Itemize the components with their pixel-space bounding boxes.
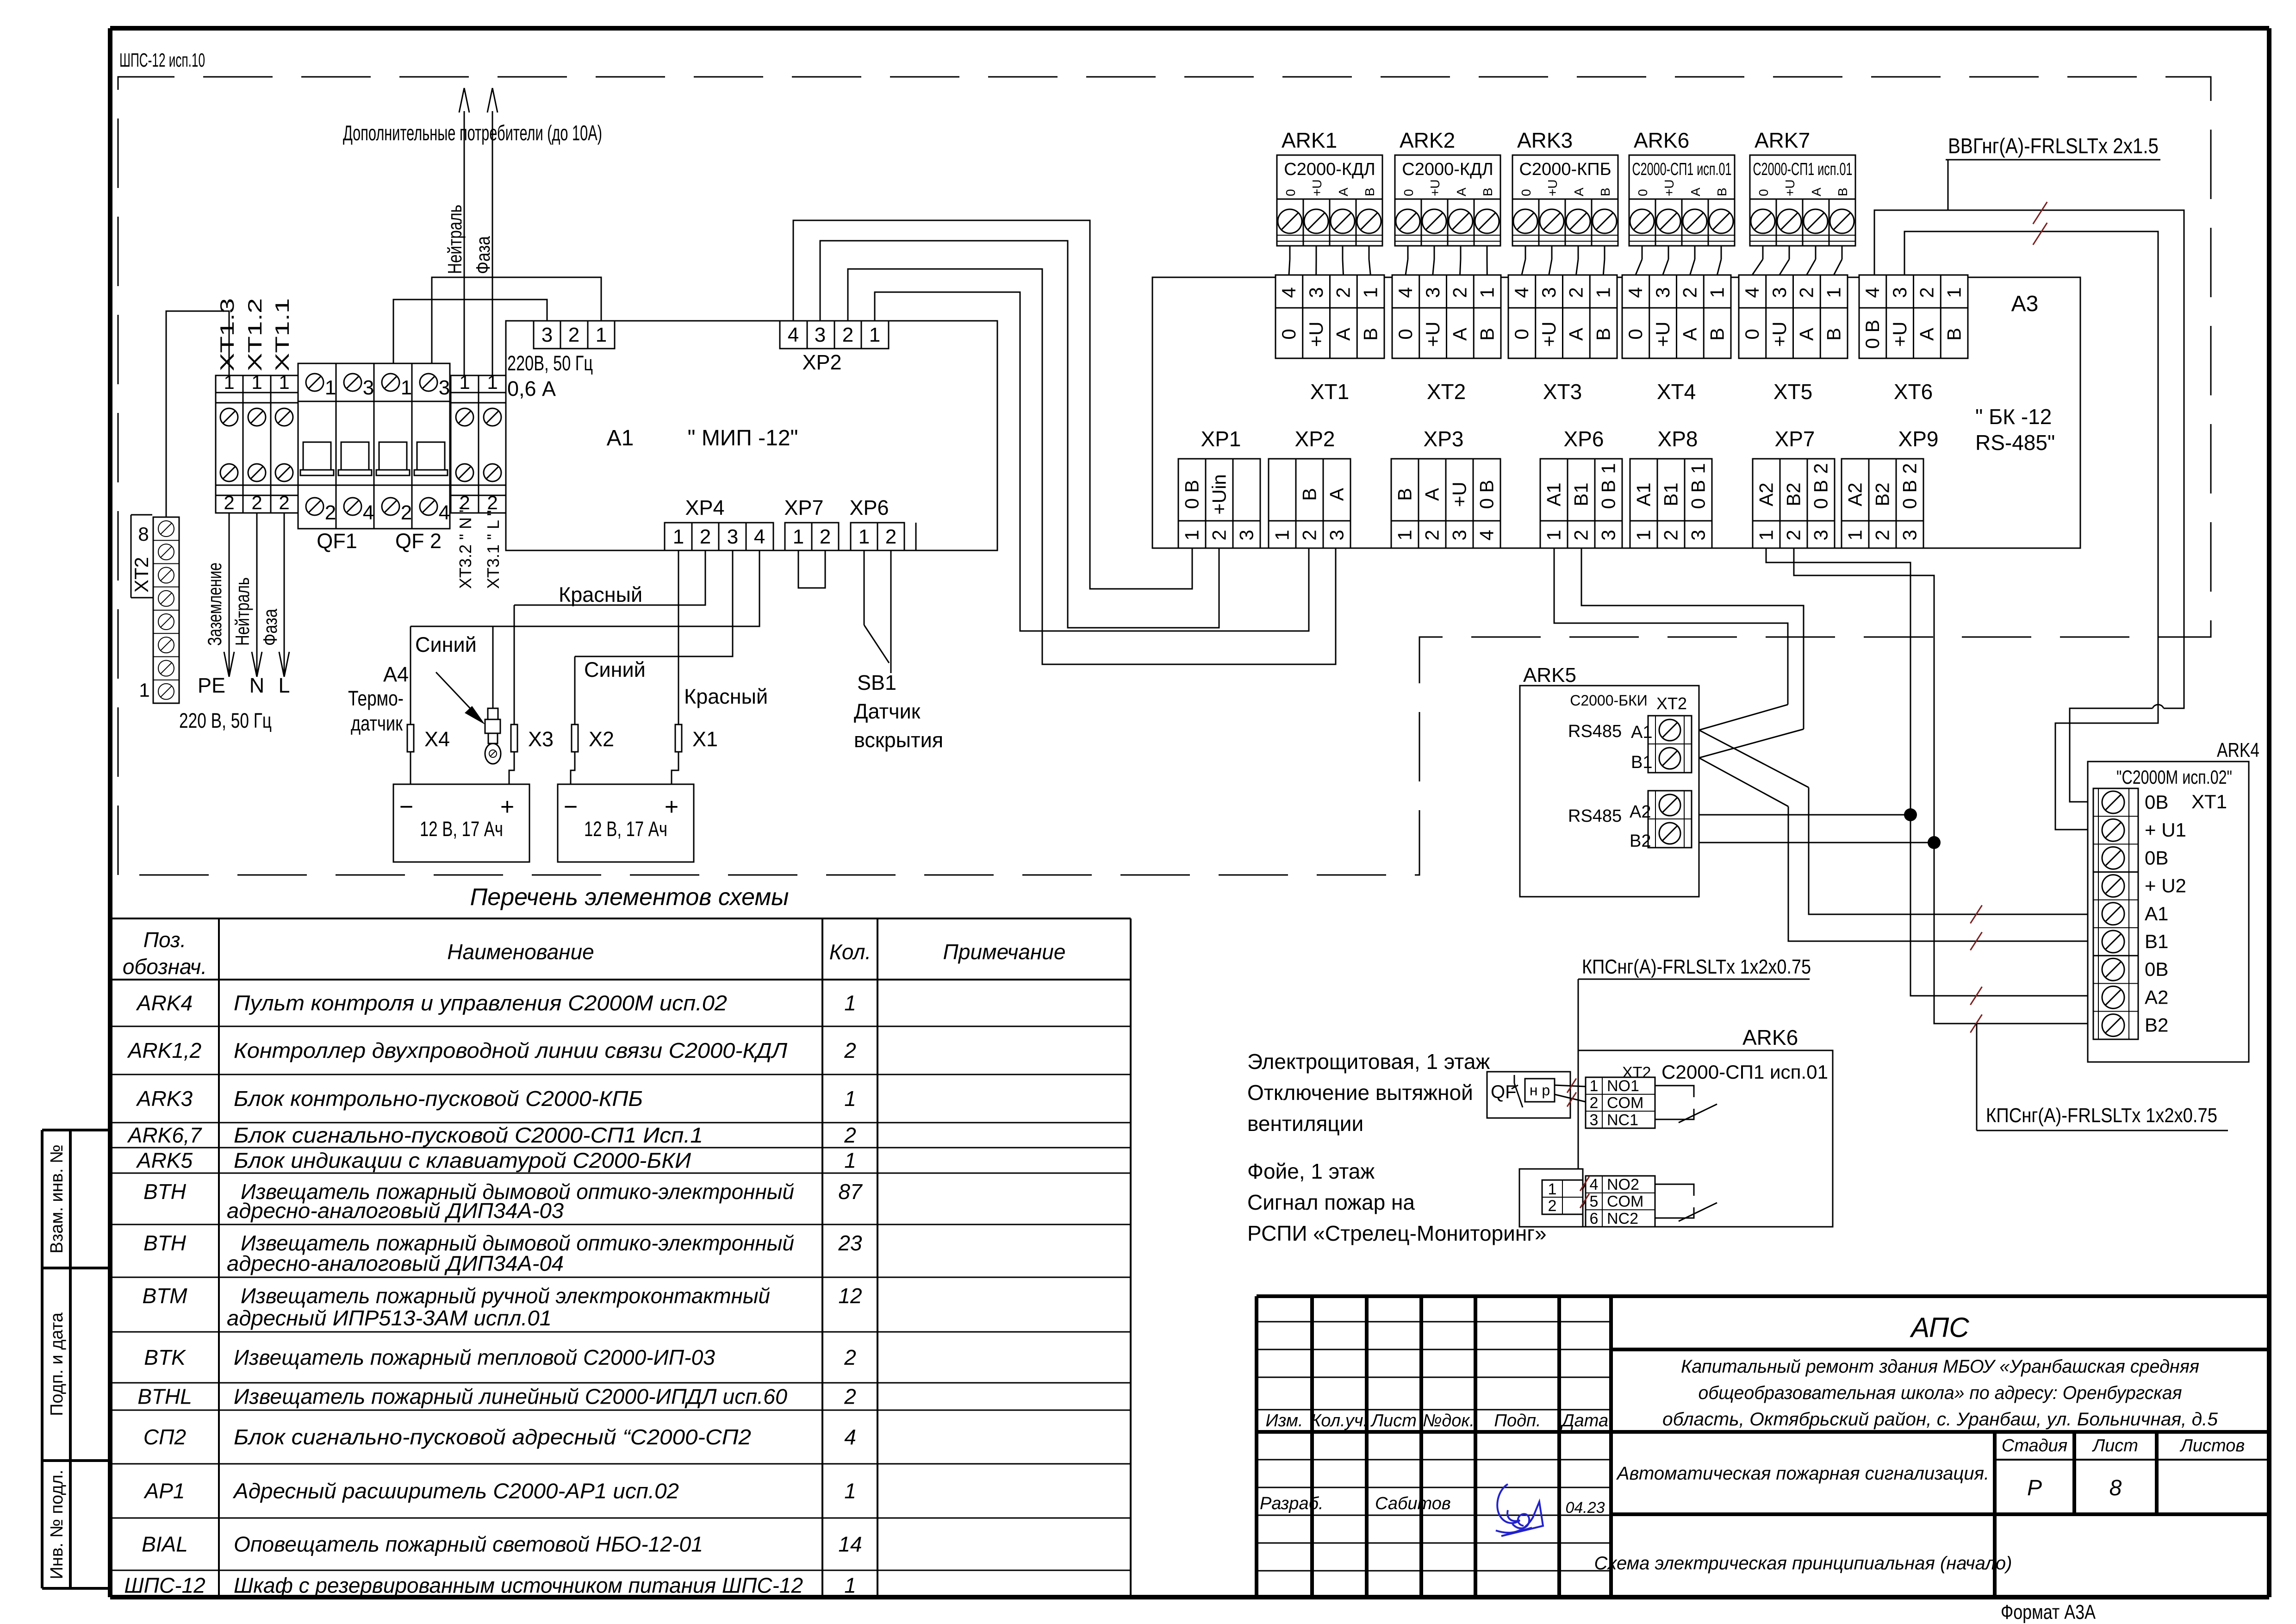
svg-text:Лист: Лист (1370, 1411, 1417, 1430)
svg-text:Пульт контроля и управления С2: Пульт контроля и управления С2000М исп.0… (234, 991, 727, 1015)
svg-text:2: 2 (1916, 287, 1938, 298)
svg-text:NC1: NC1 (1607, 1111, 1638, 1129)
svg-text:04.23: 04.23 (1565, 1499, 1605, 1517)
svg-text:В: В (1823, 328, 1844, 341)
svg-text:QF 2: QF 2 (395, 529, 442, 553)
svg-text:2: 2 (844, 1385, 856, 1409)
svg-text:Блок контрольно-пусковой С2000: Блок контрольно-пусковой С2000-КПБ (234, 1087, 643, 1111)
svg-text:3: 3 (363, 376, 374, 399)
svg-text:4: 4 (1741, 287, 1763, 298)
svg-text:Автоматическая пожарная сигнал: Автоматическая пожарная сигнализация. (1616, 1463, 1989, 1484)
svg-text:ARK4: ARK4 (2217, 739, 2259, 762)
svg-text:Х2: Х2 (589, 727, 614, 751)
svg-text:1: 1 (139, 679, 149, 701)
svg-text:А: А (1454, 187, 1468, 196)
svg-text:0 В: 0 В (1861, 319, 1883, 349)
svg-text:Перечень элементов схемы: Перечень элементов схемы (470, 884, 789, 911)
svg-text:ARK7: ARK7 (1755, 128, 1810, 152)
svg-text:Нейтраль: Нейтраль (444, 205, 466, 274)
svg-text:RS-485": RS-485" (1975, 431, 2055, 455)
svg-text:+U: +U (1305, 322, 1327, 347)
svg-text:0: 0 (1741, 329, 1763, 339)
svg-text:+U: +U (1538, 322, 1560, 347)
svg-text:2: 2 (1810, 463, 1832, 474)
svg-text:2: 2 (1299, 530, 1320, 540)
svg-text:4: 4 (1476, 530, 1498, 540)
svg-text:С2000-СП1 исп.01: С2000-СП1 исп.01 (1753, 160, 1853, 179)
svg-text:Р: Р (2027, 1476, 2042, 1500)
svg-text:4: 4 (754, 525, 765, 548)
svg-text:+U: +U (1783, 179, 1797, 196)
svg-text:В2: В2 (1872, 482, 1893, 506)
svg-text:С2000-СП1 исп.01: С2000-СП1 исп.01 (1661, 1061, 1828, 1083)
svg-text:1: 1 (1590, 1077, 1599, 1095)
svg-text:ХТ5: ХТ5 (1773, 380, 1812, 404)
svg-text:Фаза: Фаза (259, 608, 281, 646)
svg-text:Контроллер двухпроводной линии: Контроллер двухпроводной линии связи С20… (234, 1038, 787, 1062)
svg-text:3: 3 (1598, 530, 1619, 540)
svg-text:−: − (564, 793, 578, 820)
svg-text:1: 1 (1943, 287, 1965, 298)
svg-text:А: А (1796, 328, 1817, 341)
svg-text:ХТ1.1: ХТ1.1 (271, 298, 293, 371)
svg-text:А4: А4 (383, 662, 409, 686)
svg-text:ХР1: ХР1 (1201, 427, 1241, 451)
svg-text:3: 3 (1590, 1111, 1599, 1129)
svg-text:РСПИ «Стрелец-Мониторинг»: РСПИ «Стрелец-Мониторинг» (1247, 1221, 1547, 1245)
svg-text:4: 4 (1624, 287, 1646, 298)
svg-text:+: + (665, 793, 678, 820)
svg-text:1: 1 (1543, 530, 1565, 540)
svg-text:8: 8 (2109, 1476, 2122, 1500)
svg-text:BTK: BTK (144, 1345, 187, 1369)
svg-text:0В: 0В (2145, 791, 2168, 813)
svg-text:КПСнг(А)-FRLSLTх 1х2х0.75: КПСнг(А)-FRLSLTх 1х2х0.75 (1986, 1104, 2217, 1127)
svg-text:2: 2 (1796, 287, 1817, 298)
svg-text:С2000-КДЛ: С2000-КДЛ (1402, 160, 1493, 179)
svg-text:общеобразовательная школа» по: общеобразовательная школа» по адресу: Ор… (1699, 1383, 2182, 1403)
svg-text:" БК -12: " БК -12 (1975, 405, 2052, 429)
svg-text:3: 3 (1889, 287, 1910, 298)
svg-text:ХР7: ХР7 (1775, 427, 1815, 451)
svg-text:1: 1 (844, 991, 856, 1015)
svg-text:4: 4 (1278, 287, 1300, 298)
svg-text:область, Октябрьский район, с.: область, Октябрьский район, с. Уранбаш, … (1662, 1409, 2218, 1430)
svg-text:ШПС-12: ШПС-12 (124, 1574, 205, 1598)
svg-text:А2: А2 (2145, 986, 2168, 1008)
svg-text:COM: COM (1607, 1094, 1643, 1112)
svg-text:С2000-БКИ: С2000-БКИ (1570, 692, 1648, 709)
svg-text:ХТ2: ХТ2 (1656, 694, 1687, 713)
svg-text:В2: В2 (1630, 831, 1651, 851)
svg-text:3: 3 (541, 324, 553, 346)
svg-text:BTH: BTH (143, 1180, 187, 1204)
svg-text:ARK3: ARK3 (1517, 128, 1573, 152)
svg-text:BTH: BTH (143, 1231, 187, 1255)
svg-text:В: В (1481, 187, 1495, 196)
svg-text:А: А (1688, 187, 1703, 196)
svg-text:ХТ2: ХТ2 (131, 557, 152, 593)
svg-text:ХР2: ХР2 (1295, 427, 1335, 451)
svg-text:ХР4: ХР4 (685, 496, 724, 519)
svg-text:№док.: №док. (1423, 1411, 1475, 1430)
svg-text:3: 3 (1687, 530, 1709, 540)
svg-text:1: 1 (1633, 530, 1655, 540)
svg-text:Инв. № подл.: Инв. № подл. (47, 1470, 67, 1580)
svg-text:2: 2 (885, 525, 896, 548)
svg-text:Извещатель пожарный линейный С: Извещатель пожарный линейный С2000-ИПДЛ … (234, 1385, 787, 1409)
svg-text:QF1: QF1 (317, 529, 357, 553)
svg-text:ARK6: ARK6 (1634, 128, 1689, 152)
svg-text:В1: В1 (1660, 482, 1682, 506)
svg-text:PE: PE (198, 674, 225, 697)
svg-text:Стадия: Стадия (2002, 1436, 2067, 1455)
svg-text:4: 4 (1394, 287, 1416, 298)
svg-text:2: 2 (325, 501, 336, 524)
svg-text:ВВГнг(А)-FRLSLTх 2х1.5: ВВГнг(А)-FRLSLTх 2х1.5 (1948, 134, 2159, 158)
svg-text:Наименование: Наименование (447, 940, 594, 964)
svg-text:8: 8 (138, 523, 149, 545)
svg-text:1: 1 (844, 1149, 856, 1173)
svg-text:Синий: Синий (584, 658, 646, 681)
svg-text:Датчик: Датчик (854, 700, 921, 723)
svg-text:Лист: Лист (2091, 1436, 2138, 1455)
svg-text:В1: В1 (1570, 482, 1592, 506)
svg-text:Поз.: Поз. (143, 928, 187, 952)
svg-text:ХТ1: ХТ1 (2191, 791, 2227, 812)
svg-text:Кол.: Кол. (829, 940, 871, 964)
svg-text:0В: 0В (2145, 958, 2168, 980)
svg-text:ХР8: ХР8 (1658, 427, 1698, 451)
svg-text:1: 1 (844, 1087, 856, 1111)
svg-text:2: 2 (401, 501, 412, 524)
svg-text:Разраб.: Разраб. (1260, 1494, 1324, 1513)
svg-text:А2: А2 (1844, 482, 1866, 506)
svg-text:А1: А1 (2145, 903, 2168, 924)
svg-text:23: 23 (838, 1231, 862, 1255)
svg-text:BTHL: BTHL (137, 1385, 192, 1409)
svg-text:Схема электрическая принципиал: Схема электрическая принципиальная (нача… (1594, 1553, 2012, 1574)
svg-text:В: В (1836, 187, 1850, 196)
svg-text:АПС: АПС (1910, 1312, 1969, 1343)
svg-text:Нейтраль: Нейтраль (231, 577, 253, 646)
svg-text:4: 4 (788, 324, 799, 346)
svg-text:12: 12 (838, 1284, 862, 1308)
svg-text:Взам. инв. №: Взам. инв. № (47, 1144, 67, 1253)
svg-text:1: 1 (1181, 530, 1203, 540)
svg-text:адресно-аналоговый ДИП34А-03: адресно-аналоговый ДИП34А-03 (227, 1199, 564, 1223)
svg-text:В: В (1598, 187, 1612, 196)
svg-text:Синий: Синий (415, 633, 477, 656)
svg-text:12 В, 17 Ач: 12 В, 17 Ач (584, 817, 667, 841)
svg-text:Заземление: Заземление (204, 562, 225, 646)
svg-text:+ U2: + U2 (2145, 875, 2186, 897)
svg-text:ARK4: ARK4 (136, 991, 193, 1015)
svg-text:220 В, 50 Гц: 220 В, 50 Гц (179, 709, 272, 732)
svg-text:ХТ1.3: ХТ1.3 (216, 298, 238, 371)
svg-text:А: А (1565, 328, 1587, 341)
svg-text:Красный: Красный (559, 583, 642, 606)
svg-text:12 В, 17 Ач: 12 В, 17 Ач (420, 817, 503, 841)
svg-text:1: 1 (844, 1574, 856, 1598)
svg-text:0: 0 (1511, 329, 1532, 339)
svg-text:Красный: Красный (684, 685, 768, 708)
svg-text:+U: +U (1652, 322, 1674, 347)
svg-text:СП2: СП2 (143, 1425, 186, 1449)
svg-text:2: 2 (842, 324, 853, 346)
svg-text:+Uin: +Uin (1208, 474, 1230, 515)
svg-text:1: 1 (1598, 463, 1619, 474)
svg-text:BTM: BTM (142, 1284, 187, 1308)
svg-text:0: 0 (1283, 189, 1298, 196)
svg-text:0: 0 (1624, 329, 1646, 339)
svg-text:2: 2 (844, 1345, 856, 1369)
svg-text:0: 0 (1401, 189, 1416, 196)
svg-text:ХР6: ХР6 (1564, 427, 1604, 451)
svg-text:Оповещатель пожарный световой: Оповещатель пожарный световой НБО-12-01 (234, 1532, 703, 1556)
svg-text:ХТ6: ХТ6 (1894, 380, 1933, 404)
svg-text:Фойе, 1 этаж: Фойе, 1 этаж (1247, 1159, 1375, 1183)
svg-text:А2: А2 (1755, 482, 1777, 506)
svg-text:+U: +U (1545, 179, 1560, 196)
svg-text:3: 3 (1422, 287, 1444, 298)
svg-text:4: 4 (439, 501, 450, 524)
svg-text:ARK2: ARK2 (1400, 128, 1455, 152)
svg-text:2: 2 (1332, 287, 1354, 298)
svg-text:2: 2 (1570, 530, 1592, 540)
svg-text:Примечание: Примечание (943, 940, 1066, 964)
svg-text:Сигнал пожар на: Сигнал пожар на (1247, 1190, 1415, 1214)
svg-text:+U: +U (1768, 322, 1790, 347)
svg-text:SB1: SB1 (857, 671, 896, 694)
svg-text:1: 1 (673, 525, 684, 548)
svg-text:Блок сигнально-пусковой адресн: Блок сигнально-пусковой адресный “С2000-… (234, 1425, 751, 1449)
svg-text:В: В (1359, 328, 1381, 341)
svg-text:3: 3 (1538, 287, 1560, 298)
svg-text:ХТ4: ХТ4 (1657, 380, 1696, 404)
svg-text:н р: н р (1530, 1082, 1550, 1099)
svg-text:А: А (1916, 328, 1938, 341)
svg-text:Извещатель пожарный ручной эле: Извещатель пожарный ручной электроконтак… (241, 1284, 770, 1308)
svg-text:RS485: RS485 (1568, 722, 1622, 741)
svg-text:1: 1 (1592, 287, 1614, 298)
svg-text:В1: В1 (1631, 753, 1652, 772)
svg-text:4: 4 (1511, 287, 1532, 298)
svg-text:А1: А1 (1631, 723, 1652, 742)
svg-text:AP1: AP1 (143, 1479, 185, 1503)
svg-text:С2000-КДЛ: С2000-КДЛ (1284, 160, 1375, 179)
svg-text:Формат А3А: Формат А3А (2001, 1601, 2096, 1624)
svg-text:3: 3 (1899, 530, 1921, 540)
svg-text:4: 4 (363, 501, 374, 524)
svg-text:2: 2 (1872, 530, 1893, 540)
svg-text:0: 0 (1394, 329, 1416, 339)
svg-text:2: 2 (1783, 530, 1804, 540)
svg-text:4: 4 (1861, 287, 1883, 298)
svg-text:Подп.: Подп. (1494, 1411, 1541, 1430)
svg-text:Листов: Листов (2179, 1436, 2245, 1455)
svg-text:Извещатель пожарный тепловой С: Извещатель пожарный тепловой С2000-ИП-03 (234, 1345, 715, 1369)
svg-text:2: 2 (224, 492, 234, 513)
svg-text:1: 1 (1394, 530, 1416, 540)
svg-text:ARK3: ARK3 (136, 1087, 193, 1111)
svg-text:3: 3 (1326, 530, 1348, 540)
svg-text:А2: А2 (1630, 802, 1651, 822)
svg-text:0 В: 0 В (1598, 480, 1619, 509)
svg-text:1: 1 (1823, 287, 1844, 298)
svg-text:3: 3 (1652, 287, 1674, 298)
svg-text:+U: +U (1428, 179, 1442, 196)
svg-text:Капитальный ремонт здания МБОУ: Капитальный ремонт здания МБОУ «Уранбашс… (1681, 1356, 2199, 1377)
svg-text:2: 2 (1590, 1094, 1599, 1112)
svg-text:В2: В2 (2145, 1014, 2168, 1036)
svg-text:В: В (1943, 328, 1965, 341)
svg-text:+U: +U (1449, 482, 1470, 507)
svg-text:Х3: Х3 (528, 727, 554, 751)
svg-text:2: 2 (1679, 287, 1701, 298)
svg-text:Блок сигнально-пусковой С2000-: Блок сигнально-пусковой С2000-СП1 Исп.1 (234, 1123, 703, 1147)
svg-text:Х4: Х4 (424, 727, 450, 751)
svg-text:+ U1: + U1 (2145, 819, 2186, 841)
svg-text:2: 2 (1449, 287, 1471, 298)
svg-text:Дата: Дата (1560, 1411, 1608, 1430)
svg-text:В: В (1476, 328, 1498, 341)
svg-text:1: 1 (279, 371, 289, 393)
svg-text:1: 1 (1755, 530, 1777, 540)
svg-text:Фаза: Фаза (472, 236, 494, 274)
svg-text:1: 1 (859, 525, 870, 548)
svg-text:вскрытия: вскрытия (854, 728, 943, 752)
svg-text:Дополнительные потребители (до: Дополнительные потребители (до 10А) (343, 121, 602, 145)
svg-text:1: 1 (1476, 287, 1498, 298)
svg-text:ХТ1.2: ХТ1.2 (244, 298, 266, 371)
svg-text:1: 1 (1271, 530, 1293, 540)
svg-text:NO2: NO2 (1607, 1176, 1639, 1193)
svg-text:1: 1 (325, 376, 336, 399)
svg-text:1: 1 (1706, 287, 1728, 298)
svg-text:+: + (500, 793, 514, 820)
svg-text:Электрощитовая, 1 этаж: Электрощитовая, 1 этаж (1247, 1049, 1490, 1074)
svg-text:адресно-аналоговый ДИП34А-04: адресно-аналоговый ДИП34А-04 (227, 1251, 564, 1275)
svg-text:В: В (1394, 488, 1416, 501)
svg-text:1: 1 (793, 525, 804, 548)
svg-text:" МИП -12": " МИП -12" (687, 426, 798, 450)
svg-text:3: 3 (815, 324, 826, 346)
svg-text:КПСнг(А)-FRLSLTх 1х2х0.75: КПСнг(А)-FRLSLTх 1х2х0.75 (1582, 956, 1811, 978)
svg-text:14: 14 (838, 1532, 862, 1556)
svg-text:+U: +U (1422, 322, 1444, 347)
svg-text:ХР7: ХР7 (784, 496, 823, 519)
svg-text:2: 2 (1421, 530, 1443, 540)
svg-text:ХТ3: ХТ3 (1543, 380, 1582, 404)
svg-text:В: В (1706, 328, 1728, 341)
svg-text:А3: А3 (2011, 292, 2039, 316)
svg-text:С2000-КПБ: С2000-КПБ (1519, 160, 1611, 179)
svg-text:5: 5 (1590, 1193, 1599, 1211)
svg-text:3: 3 (1449, 530, 1470, 540)
svg-text:ХТ1: ХТ1 (1310, 380, 1349, 404)
svg-text:ХТ2: ХТ2 (1427, 380, 1466, 404)
svg-text:ХТ3.1 " L ": ХТ3.1 " L " (484, 510, 503, 589)
svg-text:ХР9: ХР9 (1898, 427, 1939, 451)
svg-text:NO1: NO1 (1607, 1077, 1639, 1095)
svg-text:А: А (1421, 488, 1443, 501)
svg-text:А1: А1 (607, 426, 634, 450)
svg-text:Сабитов: Сабитов (1375, 1494, 1451, 1513)
svg-text:4: 4 (1590, 1176, 1599, 1193)
svg-text:87: 87 (838, 1180, 863, 1204)
svg-text:2: 2 (1208, 530, 1230, 540)
svg-text:ARK1: ARK1 (1282, 128, 1337, 152)
svg-text:А1: А1 (1543, 482, 1565, 506)
svg-text:"С2000М исп.02": "С2000М исп.02" (2116, 766, 2232, 788)
svg-text:2: 2 (279, 492, 289, 513)
svg-text:2: 2 (1565, 287, 1587, 298)
svg-text:2: 2 (700, 525, 711, 548)
svg-text:ARK1,2: ARK1,2 (127, 1038, 202, 1062)
svg-text:0 В: 0 В (1687, 480, 1709, 509)
svg-text:0,6 А: 0,6 А (507, 377, 556, 400)
svg-text:Отключение вытяжной: Отключение вытяжной (1247, 1081, 1473, 1105)
svg-text:0: 0 (1519, 189, 1533, 196)
svg-text:1: 1 (869, 324, 880, 346)
svg-text:L: L (278, 674, 290, 697)
svg-text:RS485: RS485 (1568, 806, 1622, 826)
svg-text:0 В: 0 В (1476, 480, 1498, 509)
svg-text:QF: QF (1491, 1082, 1517, 1102)
svg-text:А1: А1 (1633, 482, 1655, 506)
svg-text:В1: В1 (2145, 931, 2168, 952)
svg-text:обознач.: обознач. (123, 955, 207, 979)
svg-text:1: 1 (1359, 287, 1381, 298)
svg-text:Адресный расширитель С2000-АР1: Адресный расширитель С2000-АР1 исп.02 (232, 1479, 679, 1503)
svg-text:вентиляции: вентиляции (1247, 1112, 1363, 1136)
svg-text:ARK5: ARK5 (1523, 664, 1576, 687)
svg-text:С2000-СП1 исп.01: С2000-СП1 исп.01 (1632, 160, 1732, 179)
svg-text:0 В: 0 В (1810, 480, 1832, 509)
svg-text:3: 3 (1305, 287, 1327, 298)
svg-text:3: 3 (727, 525, 738, 548)
svg-text:+U: +U (1662, 179, 1676, 196)
svg-text:ХР2: ХР2 (802, 350, 841, 374)
svg-text:А: А (1809, 187, 1823, 196)
svg-text:N: N (249, 674, 265, 697)
svg-text:3: 3 (1810, 530, 1832, 540)
svg-text:А: А (1332, 328, 1354, 341)
svg-text:0 В: 0 В (1899, 480, 1921, 509)
svg-text:1: 1 (1844, 530, 1866, 540)
svg-text:1: 1 (251, 371, 262, 393)
svg-text:ХР3: ХР3 (1424, 427, 1464, 451)
svg-text:+U: +U (1310, 179, 1324, 196)
svg-text:А: А (1326, 488, 1348, 501)
svg-text:Термо-: Термо- (348, 687, 404, 710)
svg-text:ARK6: ARK6 (1742, 1025, 1798, 1049)
svg-text:2: 2 (1548, 1197, 1557, 1215)
svg-text:COM: COM (1607, 1193, 1643, 1211)
svg-text:3: 3 (1768, 287, 1790, 298)
svg-text:Х1: Х1 (692, 727, 718, 751)
svg-text:2: 2 (251, 492, 262, 513)
svg-text:Шкаф с резервированным источни: Шкаф с резервированным источником питани… (234, 1574, 803, 1598)
svg-text:0: 0 (1636, 189, 1650, 196)
svg-text:−: − (399, 793, 413, 820)
svg-text:В: В (1715, 187, 1729, 196)
svg-text:В: В (1592, 328, 1614, 341)
svg-text:1: 1 (1687, 463, 1709, 474)
svg-text:220В, 50 Гц: 220В, 50 Гц (507, 351, 593, 375)
svg-text:А: А (1449, 328, 1471, 341)
